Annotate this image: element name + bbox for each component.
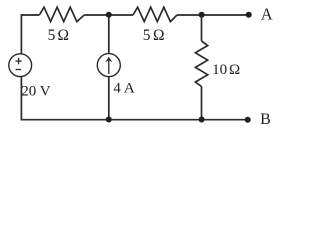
wire: top-left corner from voltage source up and right to R1 bbox=[21, 15, 39, 54]
voltage source minus sign bbox=[16, 69, 22, 71]
svg-text:Ω: Ω bbox=[58, 27, 70, 44]
resistor R1 (5 ohm) zigzag bbox=[39, 7, 84, 21]
wire: R3 bottom to bottom rail bbox=[201, 87, 203, 120]
voltage source plus sign bbox=[15, 60, 21, 62]
current source I1 circle bbox=[97, 54, 120, 77]
node dot top-right junction bbox=[199, 12, 205, 18]
svg-text:Ω: Ω bbox=[229, 62, 240, 78]
terminal dot A bbox=[246, 12, 252, 18]
current source arrow head bbox=[105, 57, 112, 62]
wire: top node down to R3 bbox=[201, 15, 203, 41]
svg-text:5: 5 bbox=[143, 27, 151, 44]
svg-text:Ω: Ω bbox=[153, 27, 165, 44]
svg-text:20 V: 20 V bbox=[21, 83, 50, 99]
wire: node to current source top bbox=[108, 15, 110, 54]
svg-text:A: A bbox=[261, 4, 273, 23]
voltage source V1 circle bbox=[9, 54, 32, 77]
wire: R1 to R2 through node at x=109 bbox=[84, 14, 133, 16]
node dot bottom-left junction bbox=[106, 117, 112, 123]
svg-text:5: 5 bbox=[48, 27, 56, 44]
resistor R2 (5 ohm) zigzag bbox=[133, 7, 177, 21]
current source arrow shaft bbox=[108, 58, 110, 74]
wire: current source bottom to bottom rail bbox=[108, 77, 110, 120]
resistor R3 (10 ohm) vertical zigzag bbox=[195, 41, 207, 87]
wire: R2 to terminal A bbox=[177, 14, 248, 16]
svg-text:B: B bbox=[260, 111, 271, 128]
node dot bottom-right junction bbox=[199, 117, 205, 123]
svg-text:4 A: 4 A bbox=[113, 80, 134, 96]
terminal dot B bbox=[245, 117, 251, 123]
node dot top-left junction bbox=[106, 12, 112, 18]
wire: bottom rail bbox=[21, 77, 247, 120]
svg-text:10: 10 bbox=[212, 62, 227, 78]
